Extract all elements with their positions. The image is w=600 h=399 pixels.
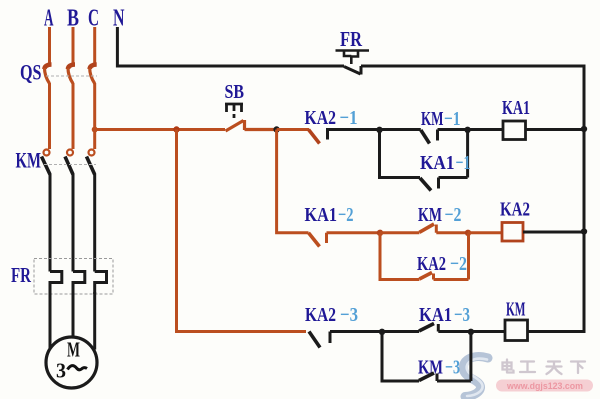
wire to KM-1	[380, 128, 421, 131]
label KA1-1	[420, 152, 471, 174]
node bus rung1	[581, 126, 587, 132]
svg-text:KM: KM	[16, 148, 42, 173]
feed wire rung2	[277, 130, 309, 233]
heater FR element C	[95, 272, 107, 295]
contactor KM pole B	[65, 150, 73, 175]
wire to KA2-1	[277, 128, 309, 131]
svg-text:−2: −2	[445, 204, 462, 226]
contact KA1-2 NC	[309, 233, 320, 247]
button SB NC blade	[226, 120, 277, 131]
branch wire KA2-2	[380, 233, 419, 280]
coil KA1	[503, 121, 526, 140]
contact KA2-3 NO	[309, 332, 320, 348]
coil KA2	[502, 223, 523, 242]
svg-text:FR: FR	[11, 263, 32, 287]
watermark logo S	[463, 357, 488, 397]
label KA1-3	[419, 304, 470, 326]
wire coil KA1 to bus	[526, 128, 585, 131]
label KM-1	[421, 108, 461, 130]
node branch1 left	[376, 127, 382, 133]
node branch3 right	[468, 329, 474, 335]
svg-text:KA2: KA2	[305, 107, 337, 129]
control feed orange rung1	[95, 128, 225, 131]
svg-text:3: 3	[56, 359, 66, 383]
svg-text:−1: −1	[340, 107, 358, 129]
svg-text:−2: −2	[450, 253, 467, 275]
contactor KM pole C	[87, 150, 95, 175]
svg-text:KM: KM	[506, 299, 526, 321]
svg-text:−1: −1	[444, 108, 461, 130]
heater FR element B	[73, 272, 85, 295]
wire phase C upper	[93, 27, 96, 64]
wire motor lead A	[49, 292, 52, 349]
svg-text:−2: −2	[338, 204, 354, 226]
button SB actuator	[225, 104, 243, 118]
svg-text:−3: −3	[454, 304, 470, 326]
wire to KA1-3	[382, 330, 419, 333]
label KM-3	[418, 357, 460, 379]
contact KA2-1 NC	[309, 130, 320, 144]
branch wire KA2-2 right	[467, 233, 470, 280]
switch QS pole C	[90, 65, 97, 70]
motor M	[46, 337, 97, 388]
thermal release FR actuator	[336, 51, 370, 65]
contact KA2-2 NO	[419, 273, 432, 280]
wire motor lead C	[93, 292, 96, 350]
wire motor lead B	[72, 292, 75, 338]
svg-text:KA1: KA1	[305, 204, 338, 226]
contact KA1-1 NO	[420, 178, 431, 191]
svg-text:M: M	[67, 338, 80, 362]
wire phase A lower	[49, 174, 52, 272]
node C tap	[92, 127, 98, 133]
wire phase A mid	[48, 83, 51, 149]
svg-text:−1: −1	[456, 152, 471, 174]
wire phase C lower	[93, 174, 96, 272]
QS linkage dashed	[46, 75, 97, 77]
wire coil KA2 to bus	[523, 231, 584, 234]
label KM-2	[418, 204, 462, 226]
wire to KM-2	[380, 231, 419, 234]
svg-text:KA2: KA2	[500, 199, 530, 221]
contact KM-3 NO	[419, 373, 434, 381]
svg-text:www.dgjs123.com: www.dgjs123.com	[506, 381, 583, 391]
wire phase B upper	[72, 27, 75, 64]
wire to coil KA2	[468, 231, 502, 234]
watermark text 电工天下	[503, 360, 586, 375]
right bus wire	[528, 65, 585, 332]
label KA2-2	[417, 253, 467, 275]
wire N	[117, 27, 344, 66]
svg-text:KA1: KA1	[502, 97, 530, 119]
label KA2-1	[305, 107, 358, 129]
node branch2 right	[465, 230, 471, 236]
svg-text:SB: SB	[225, 81, 245, 103]
svg-text:KM: KM	[421, 108, 444, 130]
branch wire KA1-1 right	[466, 130, 469, 178]
heater FR element A	[50, 272, 62, 295]
feed wire rung3	[177, 130, 307, 332]
svg-text:−3: −3	[340, 304, 358, 326]
contact KM-2 NO	[419, 224, 434, 232]
wire phase B mid	[72, 83, 75, 149]
wire to coil KM	[471, 330, 505, 333]
wire phase B lower	[72, 174, 75, 272]
svg-text:KA1: KA1	[419, 304, 452, 326]
node branch3 left	[379, 329, 385, 335]
wire phase C mid	[93, 83, 96, 149]
contact KA1-3 NO	[419, 324, 434, 332]
watermark banner www.dgjs123.com	[496, 380, 593, 392]
svg-text:KM: KM	[418, 204, 442, 226]
switch QS pole A	[45, 65, 52, 70]
svg-text:QS: QS	[20, 60, 42, 85]
svg-text:N: N	[113, 6, 125, 32]
branch wire KA1-1	[380, 130, 421, 178]
node branch2 left	[377, 230, 383, 236]
node rung3 tap	[173, 126, 179, 132]
wire phase A upper	[48, 27, 51, 64]
node bus rung2	[581, 228, 587, 234]
KM linkage dashed	[44, 164, 96, 166]
coil KM	[505, 320, 528, 341]
branch wire KM-3	[382, 332, 419, 382]
svg-text:KA1: KA1	[420, 152, 455, 174]
svg-text:KA2: KA2	[305, 304, 336, 326]
contact FR NC blade	[344, 66, 584, 75]
node rung2 tap	[273, 126, 279, 132]
label KA2-3	[305, 304, 358, 326]
svg-text:KA2: KA2	[417, 253, 446, 275]
svg-text:−3: −3	[445, 357, 460, 379]
label KA1-2	[305, 204, 354, 226]
branch wire KM-3 right	[469, 332, 472, 382]
svg-text:FR: FR	[340, 27, 363, 51]
contact KM-1 NO	[421, 130, 430, 144]
contactor KM pole A	[42, 150, 51, 175]
node branch1 right	[464, 127, 470, 133]
FR dashed box	[34, 259, 113, 295]
switch QS pole B	[68, 65, 75, 70]
wire to coil KA1	[468, 128, 503, 131]
